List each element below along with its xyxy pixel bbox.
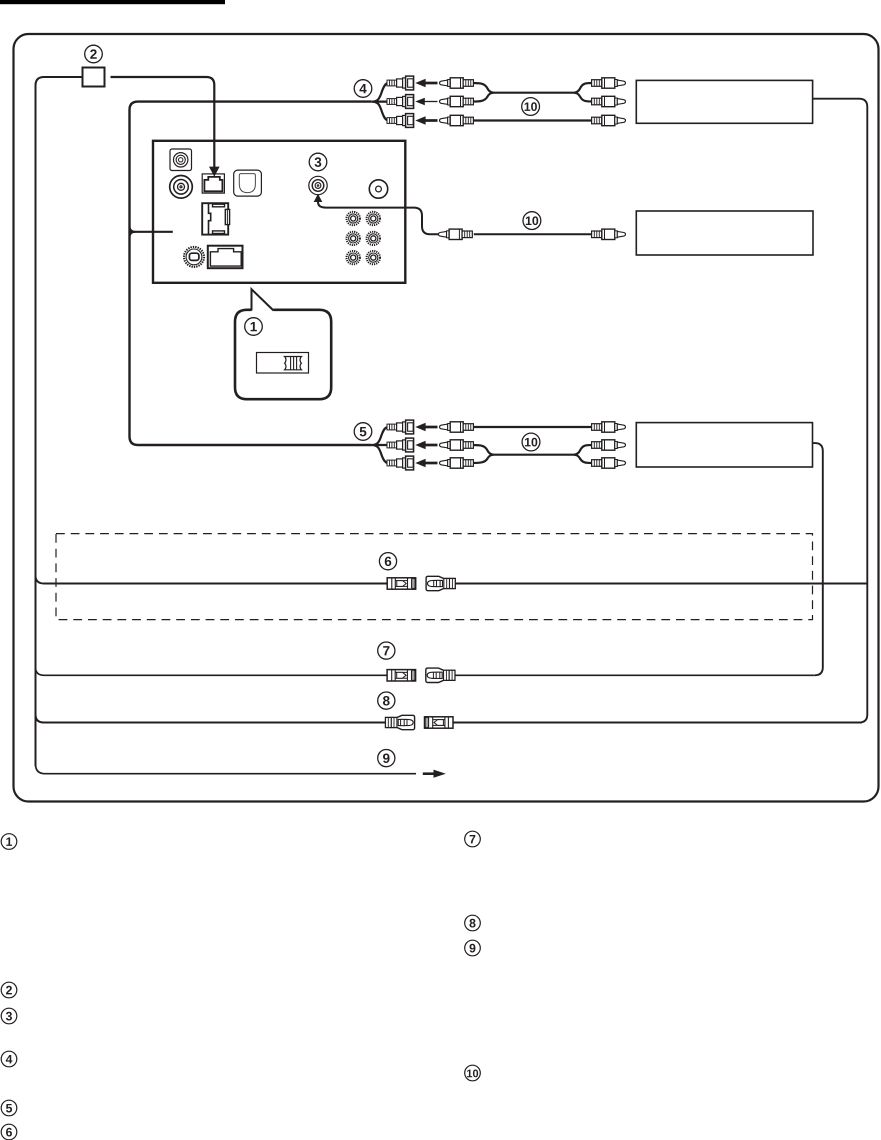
group 4 male plug row 3 [440,115,474,125]
wire from jack 3 to middle RCA cable [318,201,438,235]
group 4 male plug row 2 [440,96,474,106]
group 5 male plug row 1 [440,422,474,432]
round jack below antenna [170,176,193,199]
legend circle 3 [1,1008,17,1024]
group 5 male plug row 3 [440,458,474,468]
group 5 female RCA row 1 [387,420,414,434]
outer diagram border [14,34,879,802]
label circle 5 [354,423,372,441]
middle cable right plug [592,229,626,239]
group 4 female RCA row 1 [387,76,414,90]
group 4 right plug row 3 [592,115,626,125]
title underline bar [0,0,225,4]
legend circle 2 [1,982,17,998]
RCA jack grid row 3 left [347,251,360,264]
legend circle 4 [1,1051,17,1067]
group 4 cable pair merge [473,83,592,102]
group 5 female RCA row 2 [387,438,414,452]
optical digital connector [234,170,262,196]
fuse icon [285,357,302,370]
legend circle 7 [465,831,481,847]
label circle 3 [309,153,327,171]
group 4 arrow row 1 [415,79,437,88]
legend circled numbers [1,831,480,1140]
wire from box 3 down to row 7 [813,443,823,675]
dashed option box [56,534,813,620]
legend circle 1 [1,834,17,850]
wire branch to row 8 [36,715,863,723]
group 5 arrow row 2 [415,441,437,450]
group 4 female RCA row 3 [387,114,414,128]
arrow row 9 [423,770,446,778]
row 8 male disconnect (mirrored) [386,715,415,729]
box device 1 (top right) [636,80,812,123]
wire corner to row 9 [36,764,417,774]
callout 1 pointer [252,289,274,310]
group 5 cable row 1 [473,426,592,428]
antenna jack (square) [170,149,192,171]
AI-NET connector (RJ45 style) [202,174,224,193]
group 5 split wires [371,427,388,463]
group 4 arrow row 2 (thin) [415,98,437,106]
row 7 male disconnect [426,668,455,682]
group 4 arrow row 3 [415,116,437,125]
row 8 female disconnect (mirrored) [425,717,454,728]
label circle 9 [378,750,395,767]
row 6 male disconnect [426,576,455,590]
box device 3 (lower right) [636,423,812,467]
middle RCA cable [474,233,592,235]
group 5 arrow row 1 [415,423,437,432]
label circle 10 top [522,98,540,116]
wire branch to row 7 [36,667,815,675]
RCA jack grid row 1 left [347,212,360,225]
RCA jack grid row 3 right [367,251,380,264]
row 6 female disconnect [387,578,416,589]
legend circle 9 [465,940,481,956]
stub wire into head unit panel [130,231,173,233]
group 5 right plug row 3 [592,458,626,468]
group 5 cable pair merge [473,445,592,463]
big loop wire from head unit to groups 4 and 5 [130,102,372,445]
RCA jack grid row 2 right [367,232,380,245]
label circle 4 [354,80,372,98]
label circle 6 [379,553,396,570]
box item 2 (microphone) [83,68,105,87]
group 5 female RCA row 3 [387,456,414,470]
head unit rear panel [153,141,405,283]
group 4 right plug row 1 [592,78,626,88]
legend circle 8 [465,915,481,931]
fuse holder rectangle [257,353,309,374]
group 4 cable row 3 [473,119,592,121]
group 5 male plug row 2 [440,440,474,450]
label circle 7 [378,642,395,659]
wire from box 1 down right side to row 8 [813,99,868,723]
wire from box 2 left, down the left side (trunk) [36,77,83,766]
callout 1 box [235,310,331,399]
legend circle 10 [465,1065,481,1081]
middle cable left plug [438,229,472,239]
right round jack [369,180,387,198]
group 5 arrow row 3 [415,459,437,468]
group 4 female RCA row 2 [387,95,414,109]
wire branch to row 6 [36,576,868,584]
row 7 female disconnect [387,670,416,681]
group 4 split wires [372,83,389,121]
group 5 right plug row 2 [592,440,626,450]
rectangular connector (bottom) [208,246,243,269]
arrow into jack 3 [314,194,323,202]
label circle 1 [245,318,263,336]
DIN jack (bottom round) [184,247,204,267]
box device 2 (middle right) [636,211,813,255]
label circle 10 bottom [522,433,540,451]
wire from box 2 right to AI-NET jack with arrow [111,77,215,168]
legend circle 6 [1,1124,17,1140]
RCA jack grid row 1 right [367,212,380,225]
group 4 right plug row 2 [592,96,626,106]
group 5 right plug row 1 [592,422,626,432]
label circle 2 [85,45,103,63]
RCA jack grid row 2 left [347,232,360,245]
AUX input jack 3 [309,176,327,194]
label circle 8 [378,692,395,709]
label circle 10 middle [523,212,541,230]
power connector (middle) [202,203,229,234]
group 4 male plug row 1 [440,78,474,88]
legend circle 5 [1,1100,17,1116]
